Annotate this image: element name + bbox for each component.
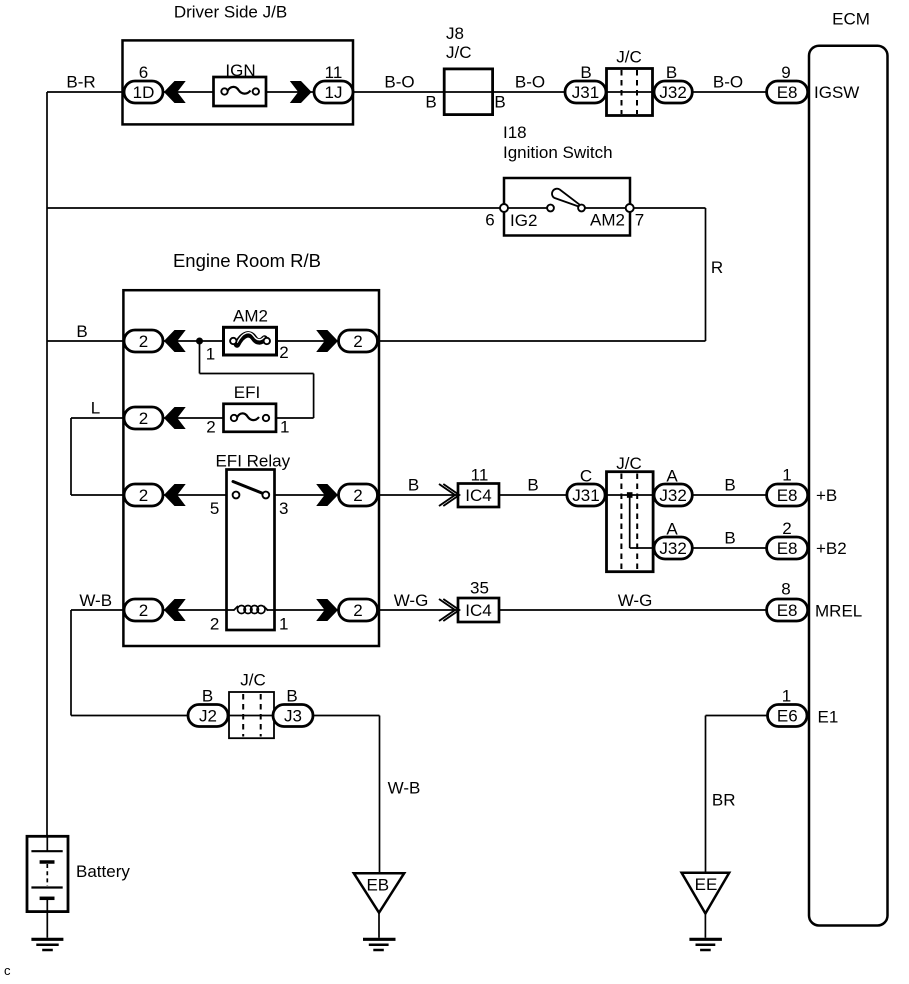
svg-text:B-R: B-R <box>66 73 95 92</box>
svg-text:J/C: J/C <box>616 48 642 67</box>
svg-text:3: 3 <box>279 499 288 518</box>
svg-text:2: 2 <box>782 519 791 538</box>
svg-text:B: B <box>286 687 297 706</box>
svg-text:J32: J32 <box>659 539 686 558</box>
svg-text:2: 2 <box>279 343 288 362</box>
svg-text:Driver Side J/B: Driver Side J/B <box>174 3 287 22</box>
svg-text:2: 2 <box>139 601 148 620</box>
svg-text:ECM: ECM <box>832 10 870 29</box>
svg-text:J31: J31 <box>572 83 599 102</box>
svg-text:L: L <box>91 399 100 418</box>
svg-text:2: 2 <box>206 418 215 437</box>
svg-text:c: c <box>4 963 11 978</box>
svg-text:B: B <box>202 687 213 706</box>
svg-text:B-O: B-O <box>713 73 743 92</box>
svg-text:R: R <box>711 258 723 277</box>
svg-text:E8: E8 <box>777 601 798 620</box>
svg-text:11: 11 <box>471 466 489 485</box>
svg-text:W-G: W-G <box>394 591 429 610</box>
svg-text:Ignition Switch: Ignition Switch <box>503 143 613 162</box>
svg-text:1D: 1D <box>133 83 155 102</box>
svg-text:35: 35 <box>470 579 489 598</box>
svg-text:1: 1 <box>280 418 289 437</box>
svg-text:C: C <box>580 467 592 486</box>
svg-text:E8: E8 <box>777 539 798 558</box>
svg-text:1: 1 <box>782 466 791 485</box>
svg-text:Battery: Battery <box>76 862 130 881</box>
svg-text:E8: E8 <box>777 486 798 505</box>
svg-text:J32: J32 <box>659 83 686 102</box>
svg-text:E1: E1 <box>818 708 839 727</box>
svg-text:11: 11 <box>325 63 343 82</box>
svg-text:2: 2 <box>210 615 219 634</box>
svg-text:B-O: B-O <box>384 73 414 92</box>
svg-text:B: B <box>76 322 87 341</box>
svg-text:W-G: W-G <box>618 591 653 610</box>
svg-text:7: 7 <box>635 211 644 230</box>
svg-text:AM2: AM2 <box>233 307 268 326</box>
svg-text:BR: BR <box>712 791 736 810</box>
svg-text:B: B <box>580 63 591 82</box>
svg-text:1: 1 <box>782 687 791 706</box>
svg-text:2: 2 <box>353 332 362 351</box>
svg-text:8: 8 <box>781 580 790 599</box>
svg-text:A: A <box>666 467 678 486</box>
svg-text:AM2: AM2 <box>590 211 625 230</box>
svg-text:J/C: J/C <box>446 43 472 62</box>
svg-text:W-B: W-B <box>388 779 421 798</box>
svg-text:I18: I18 <box>503 123 527 142</box>
svg-text:J2: J2 <box>199 707 217 726</box>
svg-text:J32: J32 <box>659 486 686 505</box>
svg-text:J8: J8 <box>446 24 464 43</box>
svg-text:Engine Room R/B: Engine Room R/B <box>173 250 321 271</box>
svg-text:+B2: +B2 <box>816 539 847 558</box>
svg-text:2: 2 <box>353 486 362 505</box>
svg-text:W-B: W-B <box>79 591 112 610</box>
svg-text:9: 9 <box>781 63 790 82</box>
svg-text:EE: EE <box>695 875 718 894</box>
svg-text:2: 2 <box>139 486 148 505</box>
svg-text:E6: E6 <box>777 707 798 726</box>
svg-text:B: B <box>425 93 436 112</box>
svg-text:A: A <box>666 520 678 539</box>
svg-text:1: 1 <box>206 345 215 364</box>
svg-text:B: B <box>494 93 505 112</box>
svg-text:J31: J31 <box>572 486 599 505</box>
svg-text:2: 2 <box>139 332 148 351</box>
svg-text:IGSW: IGSW <box>814 83 859 102</box>
svg-text:IC4: IC4 <box>465 601 491 620</box>
svg-text:IGN: IGN <box>225 61 255 80</box>
svg-text:IC4: IC4 <box>465 486 491 505</box>
svg-text:B: B <box>527 476 538 495</box>
svg-text:B: B <box>408 476 419 495</box>
svg-text:EFI: EFI <box>234 383 260 402</box>
svg-text:MREL: MREL <box>815 602 862 621</box>
svg-text:IG2: IG2 <box>510 211 537 230</box>
svg-text:J3: J3 <box>284 707 302 726</box>
svg-text:2: 2 <box>353 601 362 620</box>
svg-text:J/C: J/C <box>616 454 642 473</box>
svg-text:1J: 1J <box>325 83 343 102</box>
svg-text:6: 6 <box>485 211 494 230</box>
svg-text:1: 1 <box>279 615 288 634</box>
svg-text:J/C: J/C <box>240 671 266 690</box>
svg-text:5: 5 <box>210 499 219 518</box>
svg-text:EB: EB <box>366 876 389 895</box>
svg-text:6: 6 <box>139 63 148 82</box>
svg-text:2: 2 <box>139 409 148 428</box>
svg-text:B-O: B-O <box>515 73 545 92</box>
svg-text:B: B <box>724 476 735 495</box>
svg-text:B: B <box>724 529 735 548</box>
svg-text:B: B <box>666 63 677 82</box>
svg-text:E8: E8 <box>777 83 798 102</box>
svg-text:EFI Relay: EFI Relay <box>215 452 290 471</box>
svg-text:+B: +B <box>816 486 837 505</box>
